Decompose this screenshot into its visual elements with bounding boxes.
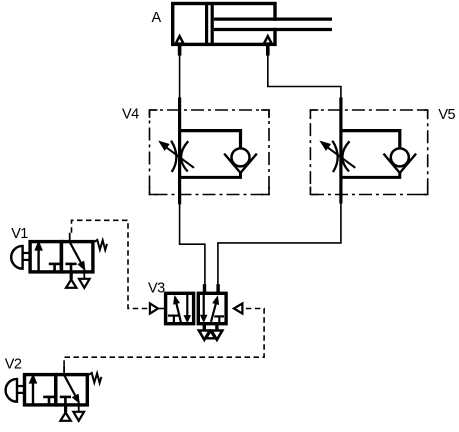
V4 enclosure corner marks [150, 110, 270, 195]
V1 exhaust line and triangle port 3 [83, 268, 85, 279]
V3 port 4 stub (top left) [203, 284, 206, 293]
V1 supply stub and triangle port 1 [70, 272, 73, 279]
V3 left pilot arrowhead [150, 303, 164, 313]
wire: main line through V5 (thick) [339, 98, 342, 204]
svg-text:V4: V4 [122, 107, 139, 123]
V1 right position: port 2 top stub [69, 233, 71, 242]
svg-text:V3: V3 [148, 281, 165, 297]
flow control valve V4 enclosure (dash-dot box) [150, 110, 270, 195]
valve V3 body (5/2-way impulse valve, two position squares) [166, 293, 227, 323]
V3 exhaust triangle port 3 [212, 331, 223, 340]
check valve of V4 (bypass branch) [180, 131, 257, 178]
V1 right position: blocked port 1 (T) [65, 264, 76, 272]
V1 push-button actuator [11, 246, 22, 269]
V3 port 2 stub (top right) [216, 284, 219, 293]
check valve of V5 (bypass branch) [341, 131, 416, 178]
wire: main line through V4 (thick) [178, 98, 181, 205]
wire: V5 bottom to V3 port 2 [218, 203, 341, 285]
V5 enclosure corner marks [310, 110, 427, 195]
V3 left position: flow path 1 to 4 (up arrow) [174, 297, 181, 322]
svg-text:V1: V1 [11, 226, 28, 242]
V1 left position: flow 1 to 2 (up arrow) [37, 249, 39, 272]
flow control valve V5 enclosure (dash-dot box) [310, 110, 427, 195]
V1 left position: blocked port 3 (T) [49, 264, 60, 272]
throttle (adjustable restrictor) of V5 [332, 141, 349, 172]
valve V1 (3/2-way push-button valve) [11, 233, 107, 288]
V3 supply triangle port 1 [206, 331, 215, 338]
svg-text:V5: V5 [438, 107, 455, 123]
svg-text:V2: V2 [5, 356, 22, 372]
V1 body squares [30, 242, 93, 272]
V1 right position: flow 2 to 3 (diagonal arrow) [70, 242, 83, 266]
V3 left position: flow path 2 to 3 (down arrow) [185, 295, 190, 322]
cylinder A (double-acting cylinder body) [173, 2, 332, 46]
V1 return spring [95, 240, 108, 250]
V3 right position: flow path 1 to 2 (up arrow) [211, 297, 218, 322]
V3 right position: flow path 4 to 5 (down arrow) [201, 295, 206, 321]
wire: cylinder right port down and over to V5 [268, 55, 341, 99]
throttle (adjustable restrictor) of V4 [171, 141, 188, 172]
wire: cylinder left port down to V4 [179, 55, 181, 99]
cylinder right port arrow [264, 36, 272, 55]
V3 right position: blocked port 3 (T) [214, 316, 224, 322]
V3 right pilot arrowhead [234, 303, 243, 313]
V3 exhaust triangle port 5 [199, 331, 210, 340]
svg-text:A: A [152, 10, 162, 26]
valve V2 (3/2-way push-button valve, same symbol as V1) [6, 366, 102, 421]
pilot wire: V1 output to V3 left pilot (dashed) [72, 220, 150, 308]
cylinder left port arrow [176, 36, 184, 55]
pilot wire: V2 output to V3 right pilot (dashed) [64, 309, 264, 366]
V3 port 5 stub (bottom left) [203, 324, 206, 331]
wire: V4 bottom to V3 port 4 [180, 204, 205, 285]
V3 port 3 stub (bottom right) [215, 324, 218, 331]
V3 left position: blocked port 5 (T) [168, 316, 179, 323]
